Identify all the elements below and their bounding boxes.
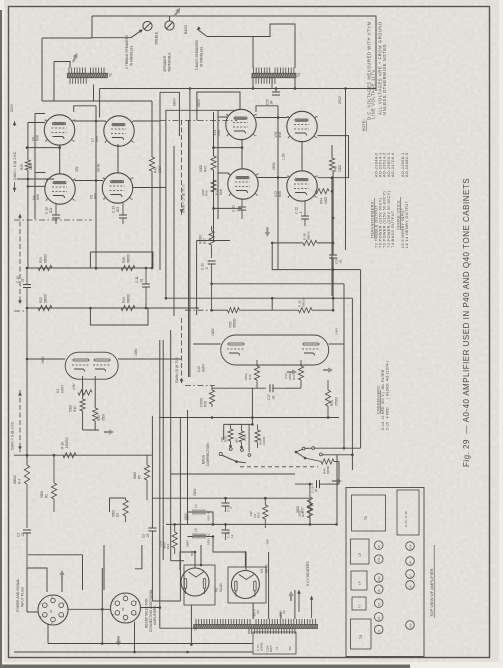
wire V6-V4 column	[59, 145, 61, 175]
ground arrow at T2	[71, 52, 80, 63]
wire harness x165.9	[165, 110, 167, 298]
wire right tube rail	[218, 110, 229, 219]
resistor R39	[211, 180, 216, 192]
tube V15 6V6	[287, 111, 317, 141]
resistor R24	[38, 265, 52, 270]
wire y388 link	[285, 387, 301, 389]
capacitor C17	[252, 387, 266, 389]
wire V14-V12 column	[241, 139, 243, 170]
resistor R19	[80, 399, 85, 411]
resistor R20	[93, 408, 98, 421]
ground arrow mid	[265, 227, 270, 237]
ground arrow V3	[104, 429, 114, 434]
wire harness x159	[159, 340, 161, 628]
ground arrow P1	[59, 570, 64, 580]
heater arrow 1	[298, 590, 300, 612]
wire harness x173	[170, 330, 172, 561]
top view tube V15	[374, 555, 383, 564]
tube V12 6V6	[228, 169, 258, 199]
wire V6-V7 plate link	[74, 120, 105, 122]
section divider dash y466	[240, 466, 318, 468]
wire treble terminal lead	[131, 30, 142, 38]
connector P1	[38, 595, 68, 625]
wire T2 inner loop	[42, 62, 100, 102]
switch bass contacts	[219, 452, 222, 455]
top view tube V7	[406, 570, 415, 579]
resistor R42	[149, 157, 154, 171]
top view T2 box	[352, 597, 366, 610]
wire y147 link left	[27, 147, 60, 149]
resistor R19 h	[78, 390, 92, 395]
wire harness x190 long	[189, 89, 191, 378]
wire P1 feeds	[27, 568, 62, 612]
wire V12-V13 plate link	[258, 177, 288, 179]
wire harness x188.5	[188, 120, 190, 377]
wire feedback box bottom	[90, 308, 148, 325]
transformer T3 primary turns	[196, 619, 250, 625]
wire y524 row	[166, 523, 337, 525]
wire center vertical right group	[277, 106, 279, 270]
wire bus to V4 grid	[28, 185, 46, 187]
wire V14-V15 plate link	[256, 117, 288, 119]
tube V10 6SN7	[221, 335, 329, 365]
terminal common	[165, 21, 174, 30]
wire y208 link right	[214, 207, 243, 209]
resistor R43	[211, 156, 216, 170]
wire x196 drop	[196, 241, 198, 316]
resistor R34	[316, 189, 330, 194]
wire x339 drop	[338, 462, 340, 485]
heater arrow 2	[311, 596, 313, 618]
top view tube V4	[374, 599, 383, 608]
wire V3 cathode drop	[83, 376, 99, 430]
wire V10 right lead	[329, 343, 344, 345]
wire y474 row	[171, 473, 295, 475]
fuse box	[253, 632, 296, 654]
resistor R35	[227, 308, 239, 313]
transformer T4 primary turns right	[275, 68, 294, 74]
top view L4 box	[351, 571, 367, 590]
section divider dash-dot y385	[185, 384, 215, 386]
resistor R44	[321, 459, 334, 464]
wire bus to V4 top	[17, 178, 54, 180]
wire harness x163	[162, 340, 164, 524]
tube V4 6V6	[45, 174, 75, 204]
switch right contacts	[302, 447, 305, 450]
wire feedback box top	[90, 252, 152, 268]
transformer T4 core	[252, 73, 296, 78]
resistor R18	[63, 453, 76, 458]
wire L5 left	[188, 537, 247, 553]
wire y299 row	[166, 297, 353, 299]
transformer T3 core	[194, 625, 318, 629]
transformer T2 primary turns right	[91, 68, 105, 74]
capacitor C25	[271, 78, 273, 89]
resistor R40	[230, 424, 232, 429]
tube V5 6V6	[102, 173, 132, 203]
wire harness x174	[173, 146, 175, 316]
wire x337 drop	[336, 455, 338, 524]
wire y498 row	[152, 497, 310, 499]
wire top bus	[92, 16, 376, 91]
resistor R32	[254, 366, 259, 380]
wire bass 2700 branch	[248, 424, 250, 452]
wire S1 feeds	[28, 545, 104, 590]
tube V9 5U4G	[231, 571, 259, 599]
wire left tube rail	[35, 114, 46, 220]
wire S1 to right	[101, 568, 103, 644]
choke L4	[193, 510, 205, 515]
resistor R-36	[299, 308, 313, 313]
top view tube V14	[406, 542, 415, 551]
main B+ bus wire	[100, 88, 376, 90]
top view outer box	[346, 488, 424, 657]
resistor R23	[121, 305, 135, 310]
capacitor C21	[241, 199, 243, 207]
resistor R26	[121, 265, 135, 270]
wire y455 row	[14, 454, 152, 456]
capacitor C12	[55, 203, 57, 215]
top view tube V6	[374, 585, 383, 594]
wire 280V stub a	[160, 92, 179, 136]
capacitor C19	[208, 260, 216, 262]
wire x344 drop	[343, 284, 345, 448]
wire x361 long	[360, 270, 362, 448]
capacitor C22	[304, 201, 306, 216]
wire T2 secondary loop	[42, 16, 131, 101]
ground arrow C17	[287, 369, 297, 374]
wire harness x152 lower	[151, 416, 153, 528]
wire V15-V13 column	[301, 141, 303, 172]
capacitor C18	[295, 483, 313, 485]
tube V13 6V6	[287, 171, 317, 201]
resistor R22	[38, 305, 52, 310]
wire V10 left lead	[193, 343, 221, 345]
transformer T2 primary turns	[69, 68, 85, 74]
wire y310 left	[212, 309, 228, 311]
wire y110 row	[165, 109, 237, 111]
wire y101 link	[100, 100, 152, 102]
choke L5	[193, 534, 205, 539]
wire bass correction top	[224, 423, 253, 425]
left signal bus	[28, 122, 45, 124]
resistor R27b	[309, 498, 311, 504]
wire heater bus	[162, 524, 164, 560]
left bus lower	[26, 308, 28, 465]
top view tube V10	[406, 621, 415, 630]
wire P1 bottom	[48, 622, 135, 652]
wire T2 bottom feed	[99, 89, 101, 118]
ground arrow C18	[332, 478, 342, 483]
connector S1	[111, 593, 141, 623]
wire y240 link	[197, 240, 230, 242]
transformer T2 secondary turns	[70, 78, 86, 84]
wire V9 top	[245, 552, 247, 570]
top view T3 box	[352, 495, 386, 531]
gain dimension line lower	[181, 318, 183, 385]
wire x152 plate feed	[151, 101, 153, 157]
page edge shadow bottom	[0, 665, 410, 668]
capacitor C16 bass	[241, 424, 243, 431]
top view T4 box	[351, 619, 372, 649]
switch bass arm	[222, 455, 237, 462]
wire y147 link right	[214, 147, 243, 149]
wire center vertical left group	[95, 106, 97, 270]
ground arrow at terminals	[172, 6, 182, 17]
wire V8 box	[184, 565, 215, 605]
resistor R27	[309, 484, 311, 497]
resistor R-38	[303, 240, 317, 245]
wire y282 row	[212, 283, 344, 285]
wire V3 plate left	[27, 358, 65, 360]
page edge shadow left	[0, 10, 2, 668]
wire 290V drop	[345, 89, 347, 251]
resistor R21	[174, 524, 176, 532]
wire harness x160	[159, 92, 161, 270]
section divider dash-dot y220	[14, 219, 92, 221]
wire switch feed	[315, 447, 361, 449]
top view tube V13	[374, 574, 383, 583]
resistor R3	[110, 498, 126, 512]
top view tube V5	[406, 581, 415, 590]
resistor R30	[211, 385, 213, 390]
wire x213 plate feed	[213, 112, 215, 156]
transformer T4 primary turns	[254, 68, 270, 74]
wire L4 left	[188, 512, 214, 524]
heater arrow grey	[288, 591, 293, 601]
wire x352 drop	[351, 298, 353, 470]
wire 280V stub b	[197, 92, 240, 121]
tube V3 6SN7	[65, 352, 118, 379]
wire V9 box	[228, 567, 266, 603]
terminal treble	[143, 21, 152, 30]
wire T3 drops	[269, 552, 295, 619]
tube V8 5U4G	[181, 568, 209, 596]
resistor R45 on bus	[25, 160, 30, 170]
tube V6 6V6	[44, 115, 74, 145]
resistor R33	[298, 366, 303, 380]
resistor R5	[146, 455, 148, 465]
wire V4-V5 plate link	[75, 180, 104, 182]
wire y243 row	[272, 242, 303, 244]
wire y417 row	[159, 417, 339, 419]
section divider dash-dot y312	[14, 310, 27, 312]
wire x332 plate feed	[318, 136, 349, 178]
tube V14 6V6	[226, 109, 256, 139]
wire V3 plate right	[118, 358, 181, 360]
capacitor C11	[145, 268, 147, 284]
capacitor C13	[122, 203, 124, 215]
wire R38 loop	[272, 243, 360, 270]
capacitor C2	[148, 527, 156, 529]
capacitor C14	[225, 524, 227, 530]
wire harness x180	[179, 418, 181, 602]
wire V13 plate to bus	[316, 190, 317, 192]
capacitor C1 on bus	[23, 529, 31, 531]
bottom bus 1	[48, 643, 253, 645]
gain dimension line mid	[181, 120, 183, 215]
resistor R37	[211, 226, 213, 231]
capacitor C10 on bus	[26, 268, 28, 284]
transformer T2 core	[68, 73, 108, 78]
resistor R4 on bus	[24, 465, 29, 484]
wire T4 bottom feed	[294, 78, 296, 89]
top view L5 box	[351, 539, 370, 564]
wire y308 row	[27, 307, 199, 309]
gain dimension line 9	[19, 390, 21, 452]
resistor R2	[53, 455, 55, 483]
top view tube V9	[406, 557, 415, 566]
capacitor C20 on bus	[332, 170, 334, 255]
resistor R46	[329, 158, 334, 170]
transformer T3 primary turns b	[256, 619, 315, 625]
resistor R28	[264, 498, 266, 505]
tube V7 6V6	[104, 116, 134, 146]
section divider dash-dot y120	[160, 120, 237, 122]
wire y310 row	[272, 309, 298, 311]
top view tube V1	[374, 625, 383, 634]
wire y268 row	[27, 267, 153, 269]
top view tube V8	[374, 541, 383, 550]
gain dimension line upper	[19, 214, 21, 304]
wire V8 plate feeds	[180, 552, 195, 570]
wire bass to T4	[207, 24, 295, 68]
wire harness x187	[187, 410, 189, 524]
resistor R45b	[257, 424, 259, 430]
top view C14-C15 box	[397, 490, 419, 535]
top view tube V3	[374, 613, 383, 622]
wire V7-V5 column	[117, 144, 119, 174]
resistor R31	[327, 380, 329, 390]
capacitor C15	[225, 498, 227, 503]
bottom bus 2	[14, 651, 253, 653]
wire bass correction left	[223, 424, 225, 440]
wire bass terminal lead	[197, 29, 207, 36]
transformer T4 secondary turns	[256, 78, 275, 84]
ground arrow R33	[323, 367, 333, 372]
transformer T3 secondary turns	[249, 629, 295, 635]
